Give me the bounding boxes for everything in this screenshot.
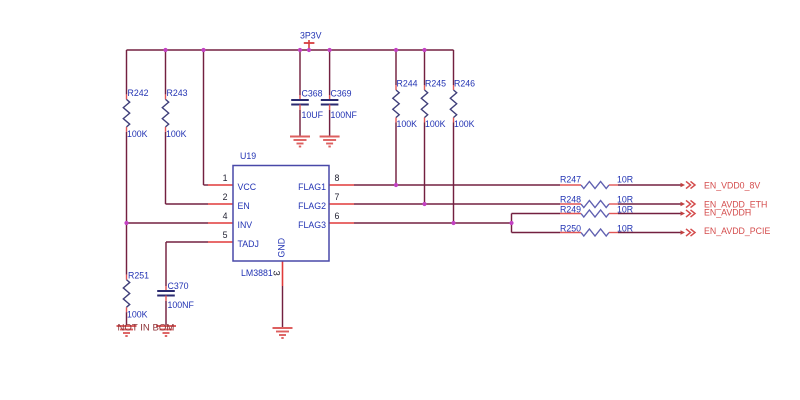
- svg-text:R245: R245: [425, 79, 446, 89]
- svg-text:C370: C370: [168, 281, 189, 291]
- svg-text:EN_AVDDH: EN_AVDDH: [704, 208, 751, 218]
- svg-text:EN_AVDD_PCIE: EN_AVDD_PCIE: [704, 226, 770, 236]
- svg-text:5: 5: [223, 230, 228, 240]
- svg-text:10R: 10R: [617, 195, 633, 205]
- svg-text:FLAG2: FLAG2: [298, 201, 326, 211]
- svg-text:R248: R248: [560, 195, 581, 205]
- svg-text:100NF: 100NF: [331, 110, 358, 120]
- svg-text:VCC: VCC: [238, 182, 257, 192]
- svg-text:FLAG3: FLAG3: [298, 220, 326, 230]
- svg-text:10UF: 10UF: [302, 110, 324, 120]
- svg-text:GND: GND: [277, 238, 287, 258]
- svg-text:R246: R246: [454, 79, 475, 89]
- svg-text:TADJ: TADJ: [238, 239, 259, 249]
- svg-text:8: 8: [335, 173, 340, 183]
- svg-text:6: 6: [335, 211, 340, 221]
- svg-text:C368: C368: [302, 89, 323, 99]
- svg-text:R244: R244: [397, 79, 418, 89]
- svg-text:100K: 100K: [397, 119, 418, 129]
- svg-text:R250: R250: [560, 224, 581, 234]
- svg-text:10R: 10R: [617, 224, 633, 234]
- svg-text:1: 1: [223, 173, 228, 183]
- svg-text:INV: INV: [238, 220, 253, 230]
- svg-text:EN_VDD0_8V: EN_VDD0_8V: [704, 181, 760, 191]
- svg-text:100K: 100K: [166, 129, 187, 139]
- svg-text:100K: 100K: [454, 119, 475, 129]
- svg-text:R242: R242: [128, 88, 149, 98]
- svg-text:U19: U19: [240, 151, 256, 161]
- svg-text:10R: 10R: [617, 205, 633, 215]
- svg-text:100K: 100K: [127, 310, 148, 320]
- svg-text:C369: C369: [331, 89, 352, 99]
- svg-text:EN: EN: [238, 201, 250, 211]
- svg-text:10R: 10R: [617, 175, 633, 185]
- svg-text:R247: R247: [560, 175, 581, 185]
- svg-text:100K: 100K: [127, 129, 148, 139]
- svg-text:R251: R251: [128, 271, 149, 281]
- svg-text:FLAG1: FLAG1: [298, 182, 326, 192]
- svg-text:3P3V: 3P3V: [300, 31, 322, 41]
- svg-text:3: 3: [271, 271, 282, 276]
- svg-text:2: 2: [223, 192, 228, 202]
- svg-text:R243: R243: [167, 88, 188, 98]
- svg-text:LM3881: LM3881: [241, 268, 273, 278]
- svg-text:100NF: 100NF: [168, 300, 195, 310]
- svg-text:NOT IN BOM: NOT IN BOM: [118, 323, 175, 334]
- svg-text:100K: 100K: [425, 119, 446, 129]
- svg-text:R249: R249: [560, 205, 581, 215]
- svg-text:4: 4: [223, 211, 228, 221]
- svg-text:7: 7: [335, 192, 340, 202]
